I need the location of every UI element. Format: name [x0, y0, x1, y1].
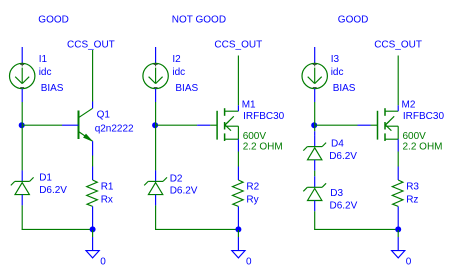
wire [21, 102, 23, 125]
wire [155, 228, 238, 230]
svg-text:600V: 600V [243, 131, 267, 142]
svg-text:CCS_OUT: CCS_OUT [67, 40, 115, 51]
zener diode D1 [11, 170, 34, 205]
wire [92, 156, 94, 167]
svg-text:Rz: Rz [406, 195, 418, 206]
svg-text:D4: D4 [331, 139, 344, 150]
wire [22, 228, 93, 230]
wire [314, 171, 316, 177]
svg-text:idc: idc [39, 67, 52, 78]
wire [397, 56, 399, 106]
svg-text:0: 0 [246, 257, 252, 268]
transistor M2 (power NMOS) [358, 105, 399, 151]
resistor R3 [392, 167, 403, 227]
wire [397, 152, 399, 167]
current source I3 [302, 47, 327, 102]
current source I1 [10, 47, 35, 102]
resistor R2 [233, 167, 244, 227]
svg-text:R2: R2 [246, 181, 259, 192]
svg-text:D3: D3 [330, 188, 343, 199]
svg-text:I2: I2 [172, 54, 181, 65]
svg-text:IRFBC30: IRFBC30 [403, 111, 445, 122]
svg-text:idc: idc [172, 67, 185, 78]
svg-text:GOOD: GOOD [38, 15, 69, 26]
wire [237, 152, 239, 167]
zener diode D4 [303, 136, 326, 171]
ground [86, 230, 99, 258]
wire [314, 125, 316, 131]
svg-text:idc: idc [331, 67, 344, 78]
junction [90, 226, 96, 232]
svg-text:GOOD: GOOD [338, 15, 369, 26]
wire [314, 211, 316, 229]
svg-text:D1: D1 [39, 173, 52, 184]
ground [392, 230, 405, 258]
svg-text:BIAS: BIAS [175, 83, 198, 94]
wire [156, 124, 198, 126]
svg-text:IRFBC30: IRFBC30 [243, 111, 285, 122]
svg-text:M1: M1 [242, 100, 256, 111]
resistor R1 [87, 167, 98, 227]
svg-text:BIAS: BIAS [333, 83, 356, 94]
svg-text:CCS_OUT: CCS_OUT [214, 40, 262, 51]
wire [314, 228, 398, 230]
wire [92, 50, 94, 102]
zener diode D2 [144, 170, 167, 205]
junction [152, 122, 158, 128]
svg-text:I3: I3 [331, 54, 340, 65]
junction [235, 226, 241, 232]
wire [21, 125, 23, 170]
svg-text:R1: R1 [101, 181, 114, 192]
svg-text:D2: D2 [170, 173, 183, 184]
ground [232, 230, 245, 258]
svg-text:CCS_OUT: CCS_OUT [374, 40, 422, 51]
current source I2 [143, 47, 168, 102]
transistor Q1 (NPN) [62, 102, 93, 156]
svg-text:2.2 OHM: 2.2 OHM [243, 142, 283, 153]
wire [155, 102, 157, 125]
svg-text:NOT GOOD: NOT GOOD [172, 15, 226, 26]
svg-text:M2: M2 [402, 100, 416, 111]
svg-text:Ry: Ry [246, 195, 258, 206]
svg-text:0: 0 [406, 257, 412, 268]
junction [19, 122, 25, 128]
wire [155, 125, 157, 170]
svg-text:0: 0 [100, 257, 106, 268]
svg-text:R3: R3 [406, 181, 419, 192]
junction [395, 226, 401, 232]
svg-text:D6.2V: D6.2V [330, 201, 358, 212]
wire [237, 56, 239, 106]
svg-text:D6.2V: D6.2V [170, 186, 198, 197]
wire [21, 205, 23, 229]
zener diode D3 [303, 176, 326, 211]
svg-text:q2n2222: q2n2222 [95, 124, 134, 135]
wire [314, 102, 316, 125]
svg-text:I1: I1 [39, 54, 48, 65]
svg-text:Q1: Q1 [97, 110, 111, 121]
junction [311, 122, 317, 128]
svg-text:D6.2V: D6.2V [39, 185, 67, 196]
wire [22, 124, 62, 126]
wire [155, 205, 157, 229]
svg-text:BIAS: BIAS [41, 83, 64, 94]
svg-text:D6.2V: D6.2V [329, 151, 357, 162]
svg-text:600V: 600V [403, 131, 427, 142]
wire [315, 124, 358, 126]
transistor M1 (power NMOS) [197, 105, 238, 151]
svg-text:2.2 OHM: 2.2 OHM [403, 142, 443, 153]
svg-text:Rx: Rx [101, 195, 113, 206]
